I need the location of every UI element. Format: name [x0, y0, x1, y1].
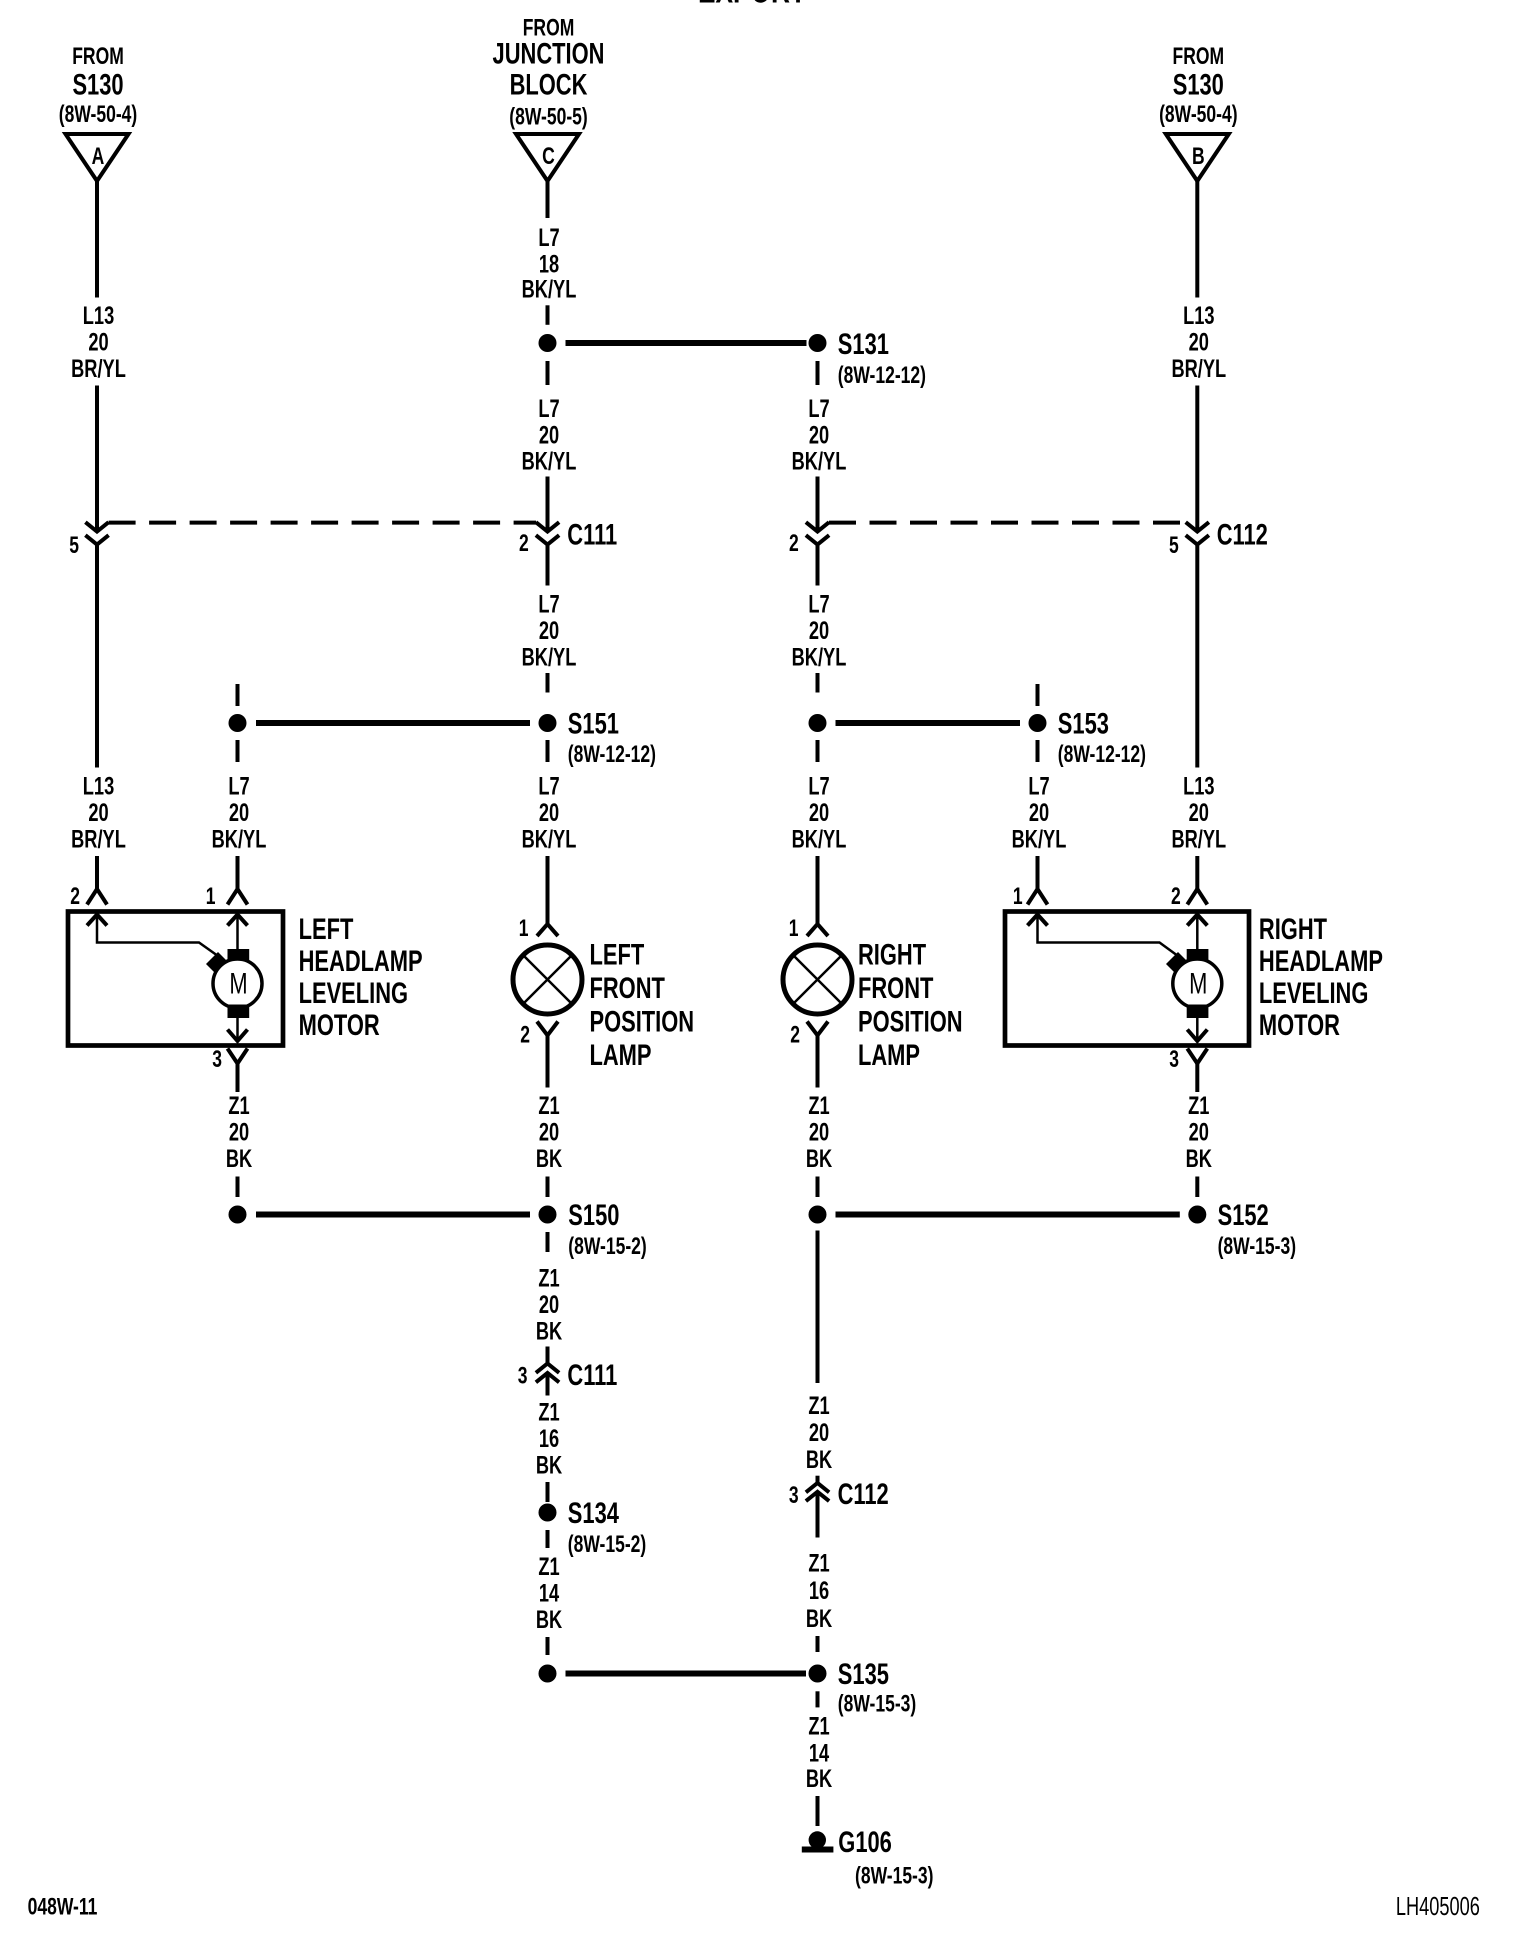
- svg-text:Z1: Z1: [228, 1091, 249, 1120]
- svg-text:G106: G106: [838, 1825, 892, 1859]
- svg-text:20: 20: [1189, 1117, 1209, 1146]
- wire stub below junction dot: [546, 361, 550, 385]
- svg-text:L13: L13: [1183, 301, 1214, 330]
- wire R to connector C112 pin 2: [816, 477, 820, 530]
- svg-text:(8W-50-5): (8W-50-5): [509, 104, 587, 130]
- svg-text:RIGHT: RIGHT: [858, 937, 926, 971]
- svg-text:(8W-15-3): (8W-15-3): [838, 1691, 916, 1717]
- svg-text:S130: S130: [72, 67, 123, 101]
- svg-text:LEVELING: LEVELING: [299, 976, 408, 1010]
- splice S134 dot: [539, 1504, 557, 1522]
- wire to left motor pin 1: [236, 856, 240, 889]
- splice line to S131: [566, 340, 807, 346]
- svg-text:2: 2: [790, 1022, 800, 1048]
- svg-text:BK/YL: BK/YL: [522, 643, 577, 672]
- svg-text:BK/YL: BK/YL: [522, 825, 577, 854]
- svg-text:Z1: Z1: [808, 1091, 829, 1120]
- splice S151 line: [256, 720, 530, 726]
- svg-text:1: 1: [519, 915, 529, 941]
- pin 1 of right front position lamp: [807, 924, 828, 936]
- svg-text:3: 3: [518, 1363, 528, 1389]
- wire stub above connector C111 pin 3: [546, 1347, 550, 1364]
- svg-text:20: 20: [809, 616, 829, 645]
- wire to ground G106: [816, 1796, 820, 1826]
- left headlamp leveling motor box: [68, 912, 283, 1046]
- svg-text:2: 2: [1171, 883, 1181, 909]
- junction dot left motor ground: [229, 1206, 247, 1224]
- splice S152 dot: [1188, 1206, 1206, 1224]
- wire stub above splice S134: [546, 1482, 550, 1502]
- svg-text:048W-11: 048W-11: [28, 1894, 98, 1920]
- right motor bottom brush block: [1187, 1005, 1209, 1019]
- svg-text:20: 20: [539, 798, 559, 827]
- svg-text:BK: BK: [806, 1604, 833, 1633]
- svg-text:LAMP: LAMP: [590, 1038, 652, 1072]
- svg-text:POSITION: POSITION: [858, 1004, 963, 1038]
- wire stub above splice S151: [546, 673, 550, 693]
- svg-text:(8W-12-12): (8W-12-12): [1058, 741, 1146, 767]
- svg-text:B: B: [1192, 143, 1205, 169]
- svg-text:BK: BK: [536, 1605, 563, 1634]
- wire A to left motor pin 2: [95, 856, 99, 889]
- wire stub above splice S153: [816, 673, 820, 693]
- wire below right lamp pin 2: [816, 1035, 820, 1087]
- svg-text:Z1: Z1: [538, 1264, 559, 1293]
- wire C from triangle: [546, 181, 550, 218]
- svg-text:1: 1: [789, 915, 799, 941]
- wire C to connector C111 pin 2: [546, 477, 550, 530]
- wire stub above splice S131 junction: [546, 305, 550, 325]
- wire to right front position lamp pin 1: [816, 856, 820, 924]
- svg-text:1: 1: [206, 883, 216, 909]
- left motor top brush block: [228, 949, 250, 961]
- svg-text:20: 20: [539, 616, 559, 645]
- svg-text:3: 3: [212, 1046, 222, 1072]
- pin 1 connector of left headlamp leveling motor: [228, 889, 248, 905]
- left motor brush contact diamond: [206, 952, 230, 976]
- svg-text:LH405006: LH405006: [1396, 1892, 1480, 1921]
- svg-text:BK/YL: BK/YL: [522, 275, 577, 304]
- wire stub below S153: [816, 740, 820, 762]
- svg-text:S131: S131: [838, 327, 889, 361]
- svg-text:(8W-15-2): (8W-15-2): [568, 1531, 646, 1557]
- svg-text:L7: L7: [808, 772, 829, 801]
- svg-text:(8W-15-2): (8W-15-2): [568, 1233, 646, 1259]
- svg-text:L7: L7: [228, 772, 249, 801]
- pin 3 connector below right motor: [1187, 1049, 1207, 1064]
- splice S151 dot: [539, 714, 557, 732]
- svg-text:20: 20: [809, 1117, 829, 1146]
- splice S131: [809, 334, 827, 352]
- svg-text:S152: S152: [1218, 1198, 1269, 1232]
- svg-text:BK: BK: [1186, 1144, 1213, 1173]
- ground G106 symbol: [809, 1831, 826, 1848]
- junction dot to S135: [539, 1665, 557, 1683]
- svg-text:Z1: Z1: [538, 1091, 559, 1120]
- svg-text:20: 20: [229, 1117, 249, 1146]
- right motor top brush block: [1187, 949, 1209, 961]
- svg-text:RIGHT: RIGHT: [1259, 912, 1327, 946]
- right motor internal wire from pin 2: [1196, 915, 1199, 951]
- svg-text:S134: S134: [568, 1496, 619, 1530]
- svg-text:C: C: [542, 143, 555, 169]
- svg-text:L7: L7: [538, 590, 559, 619]
- wire A to connector C111 pin 5: [95, 386, 99, 530]
- wire below left motor pin 3: [236, 1064, 240, 1093]
- svg-text:Z1: Z1: [538, 1398, 559, 1427]
- svg-text:Z1: Z1: [538, 1552, 559, 1581]
- svg-text:5: 5: [69, 532, 79, 558]
- svg-text:BK/YL: BK/YL: [522, 447, 577, 476]
- off-page triangle B: [1166, 134, 1229, 181]
- wire below C111-3: [546, 1373, 550, 1396]
- wire stub below S134: [546, 1530, 550, 1548]
- svg-text:EXPORT: EXPORT: [698, 0, 806, 10]
- pin 2 connector of left headlamp leveling motor: [87, 889, 107, 905]
- pin 2 connector of right headlamp leveling motor: [1187, 889, 1207, 905]
- svg-text:BK: BK: [536, 1317, 563, 1346]
- svg-text:20: 20: [809, 421, 829, 450]
- junction dot right ground branch: [809, 1206, 827, 1224]
- svg-text:LEFT: LEFT: [299, 912, 354, 946]
- svg-text:Z1: Z1: [808, 1712, 829, 1741]
- svg-text:BLOCK: BLOCK: [510, 67, 588, 101]
- svg-text:BK/YL: BK/YL: [212, 825, 267, 854]
- svg-text:3: 3: [789, 1482, 799, 1508]
- splice S135 dot: [809, 1665, 827, 1683]
- svg-text:(8W-15-3): (8W-15-3): [855, 1863, 933, 1889]
- svg-text:20: 20: [539, 421, 559, 450]
- right motor internal wire from pin 1: [1038, 915, 1179, 957]
- svg-text:20: 20: [88, 328, 108, 357]
- svg-text:3: 3: [1169, 1046, 1179, 1072]
- pin 1 of left front position lamp: [537, 924, 558, 936]
- in-line connector C111 pin 3 symbol: [536, 1364, 559, 1373]
- svg-text:20: 20: [88, 798, 108, 827]
- wire stub below right motor branch dot: [1036, 740, 1040, 762]
- svg-text:20: 20: [539, 1117, 559, 1146]
- svg-text:2: 2: [519, 530, 529, 556]
- splice S150 dot: [539, 1206, 557, 1224]
- wire stub above splice S152: [1195, 1177, 1199, 1198]
- wire B to right motor pin 2: [1195, 856, 1199, 889]
- svg-text:20: 20: [1189, 328, 1209, 357]
- wire stub below S151: [546, 740, 550, 762]
- wire B from triangle: [1195, 181, 1199, 298]
- svg-text:BK: BK: [226, 1144, 253, 1173]
- long wire below right ground junction: [816, 1231, 820, 1384]
- svg-text:2: 2: [70, 883, 80, 909]
- svg-text:BK/YL: BK/YL: [792, 825, 847, 854]
- splice S135 line: [566, 1671, 807, 1677]
- svg-text:L7: L7: [538, 394, 559, 423]
- right front position lamp symbol: [783, 945, 852, 1014]
- svg-text:MOTOR: MOTOR: [1259, 1008, 1340, 1042]
- svg-text:BK: BK: [536, 1451, 563, 1480]
- svg-text:LEVELING: LEVELING: [1259, 976, 1368, 1010]
- svg-text:Z1: Z1: [808, 1548, 829, 1577]
- wire below left lamp pin 2: [546, 1035, 550, 1087]
- svg-text:L7: L7: [808, 590, 829, 619]
- svg-text:20: 20: [539, 1290, 559, 1319]
- svg-text:(8W-50-4): (8W-50-4): [59, 101, 137, 127]
- svg-text:C111: C111: [567, 517, 617, 551]
- svg-text:BK: BK: [806, 1144, 833, 1173]
- svg-text:FROM: FROM: [72, 43, 124, 69]
- right motor brush contact diamond: [1166, 952, 1190, 976]
- off-page triangle C: [516, 134, 579, 181]
- svg-text:L7: L7: [538, 223, 559, 252]
- wire B below C112-5: [1195, 545, 1199, 768]
- svg-text:20: 20: [809, 798, 829, 827]
- svg-text:LAMP: LAMP: [858, 1038, 920, 1072]
- svg-text:2: 2: [789, 530, 799, 556]
- svg-text:BK: BK: [806, 1445, 833, 1474]
- svg-text:S130: S130: [1173, 67, 1224, 101]
- svg-text:FRONT: FRONT: [858, 971, 933, 1005]
- wire B to connector C112 pin 5: [1195, 386, 1199, 530]
- in-line connector C112 pin 2 symbol: [806, 522, 829, 531]
- wire to right motor pin 1: [1036, 856, 1040, 889]
- svg-text:20: 20: [1189, 798, 1209, 827]
- svg-text:5: 5: [1169, 532, 1179, 558]
- svg-text:Z1: Z1: [1188, 1091, 1209, 1120]
- splice S153 dot: [809, 714, 827, 732]
- svg-text:L7: L7: [808, 394, 829, 423]
- wire R below C112-2: [816, 545, 820, 586]
- svg-text:L7: L7: [538, 772, 559, 801]
- svg-text:FRONT: FRONT: [590, 971, 665, 1005]
- wire stub below S150: [546, 1232, 550, 1252]
- wire stub above motor branch dot: [236, 684, 240, 706]
- wire stub below motor branch dot: [236, 740, 240, 762]
- wire stub below splice S131: [816, 361, 820, 385]
- svg-text:BR/YL: BR/YL: [1171, 825, 1226, 854]
- svg-text:20: 20: [809, 1418, 829, 1447]
- svg-text:L13: L13: [83, 772, 114, 801]
- svg-text:S153: S153: [1058, 706, 1109, 740]
- wire below right motor pin 3: [1195, 1064, 1199, 1093]
- svg-text:16: 16: [809, 1576, 829, 1605]
- svg-text:(8W-12-12): (8W-12-12): [568, 741, 656, 767]
- svg-text:16: 16: [539, 1424, 559, 1453]
- wire A below C111-5: [95, 545, 99, 768]
- svg-text:(8W-12-12): (8W-12-12): [838, 362, 926, 388]
- svg-text:BK/YL: BK/YL: [1012, 825, 1067, 854]
- svg-text:14: 14: [539, 1579, 560, 1608]
- pin 1 connector of right headlamp leveling motor: [1028, 889, 1048, 905]
- svg-text:S151: S151: [568, 706, 619, 740]
- off-page triangle A: [66, 134, 129, 181]
- wire stub above splice S150: [546, 1177, 550, 1198]
- wire stub above connector C112 pin 3: [816, 1476, 820, 1483]
- left motor internal wire from pin 1: [236, 915, 239, 951]
- svg-text:S135: S135: [838, 1657, 889, 1691]
- svg-text:POSITION: POSITION: [590, 1004, 695, 1038]
- svg-text:BR/YL: BR/YL: [1171, 354, 1226, 383]
- svg-text:M: M: [229, 966, 247, 1000]
- svg-text:C111: C111: [567, 1358, 617, 1392]
- pin 2 of left front position lamp: [537, 1022, 558, 1036]
- svg-text:2: 2: [520, 1022, 530, 1048]
- wire stub below S135: [816, 1691, 820, 1707]
- left motor bottom brush block: [228, 1005, 250, 1019]
- wire stub above S150 branch dot: [236, 1177, 240, 1198]
- splice S150 line: [256, 1212, 530, 1218]
- in-line connector C111 pin 2 symbol: [536, 522, 559, 531]
- junction dot at C column (S131 tie): [539, 334, 557, 352]
- svg-text:S150: S150: [568, 1198, 619, 1232]
- svg-text:BK: BK: [806, 1764, 833, 1793]
- motor M circle (left): [213, 959, 262, 1008]
- svg-text:14: 14: [809, 1738, 830, 1767]
- wire to left front position lamp pin 1: [546, 856, 550, 924]
- wire stub above right motor branch dot: [1036, 684, 1040, 706]
- svg-text:L13: L13: [1183, 772, 1214, 801]
- splice S153 line: [836, 720, 1021, 726]
- svg-text:L13: L13: [83, 301, 114, 330]
- svg-text:(8W-15-3): (8W-15-3): [1218, 1233, 1296, 1259]
- svg-text:20: 20: [229, 798, 249, 827]
- wire C below C111-2: [546, 545, 550, 586]
- svg-text:HEADLAMP: HEADLAMP: [1259, 944, 1383, 978]
- svg-text:C112: C112: [838, 1477, 889, 1511]
- dashed connector line C111 (A to C): [109, 521, 536, 525]
- svg-text:FROM: FROM: [1173, 43, 1225, 69]
- left motor internal wire from pin 2: [97, 915, 218, 957]
- pin 2 of right front position lamp: [807, 1022, 828, 1036]
- right motor pin 3 internal chevron: [1187, 1030, 1207, 1042]
- svg-text:HEADLAMP: HEADLAMP: [299, 944, 423, 978]
- wire stub above S135 branch dot: [546, 1637, 550, 1655]
- left front position lamp symbol: [513, 945, 582, 1014]
- svg-text:BR/YL: BR/YL: [71, 354, 126, 383]
- svg-text:1: 1: [1013, 883, 1023, 909]
- motor M circle (right): [1173, 959, 1222, 1008]
- svg-text:BK: BK: [536, 1144, 563, 1173]
- svg-text:BK/YL: BK/YL: [792, 643, 847, 672]
- right motor internal wire to pin 3: [1196, 1018, 1199, 1040]
- svg-text:C112: C112: [1217, 517, 1268, 551]
- junction dot on motor branch: [229, 714, 247, 732]
- svg-text:MOTOR: MOTOR: [299, 1008, 380, 1042]
- svg-text:LEFT: LEFT: [590, 937, 645, 971]
- dashed connector line C112 (R to B): [829, 521, 1186, 525]
- svg-text:BR/YL: BR/YL: [71, 825, 126, 854]
- svg-text:(8W-50-4): (8W-50-4): [1159, 101, 1237, 127]
- svg-text:A: A: [92, 143, 105, 169]
- in-line connector C112 pin 5 symbol: [1186, 522, 1209, 531]
- wire A from triangle: [95, 181, 99, 298]
- svg-text:M: M: [1189, 966, 1207, 1000]
- left motor pin 3 internal chevron: [228, 1030, 248, 1042]
- in-line connector C111 pin 5 symbol: [85, 522, 108, 531]
- svg-text:Z1: Z1: [808, 1391, 829, 1420]
- wire stub above splice S135: [816, 1636, 820, 1652]
- pin 3 connector below left motor: [228, 1049, 248, 1064]
- in-line connector C112 pin 3 symbol: [806, 1483, 829, 1492]
- junction dot on right motor branch: [1029, 714, 1047, 732]
- svg-text:JUNCTION: JUNCTION: [493, 36, 605, 70]
- svg-text:20: 20: [1029, 798, 1049, 827]
- splice S152 line: [836, 1212, 1180, 1218]
- wire stub above right ground junction: [816, 1177, 820, 1198]
- left motor internal wire to pin 3: [236, 1018, 239, 1040]
- svg-text:BK/YL: BK/YL: [792, 447, 847, 476]
- wire below C112-3: [816, 1492, 820, 1538]
- svg-text:L7: L7: [1028, 772, 1049, 801]
- right headlamp leveling motor box: [1005, 912, 1249, 1046]
